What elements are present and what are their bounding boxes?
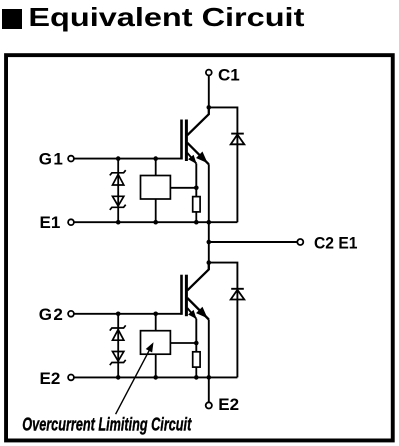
node sense junction Q2 [194, 341, 199, 346]
wire E2 bus [74, 376, 238, 378]
wire main emitter and midpoint link [208, 164, 210, 269]
node E1-emitter junction [207, 220, 212, 225]
terminal E2 output [206, 402, 212, 408]
svg-text:E1: E1 [40, 213, 61, 232]
callout arrow to overcurrent limiting circuit [116, 343, 154, 414]
wire G1 bus [74, 158, 183, 160]
node G1-box junction [153, 156, 158, 161]
node G2-box junction [153, 312, 158, 317]
svg-text:Equivalent Circuit: Equivalent Circuit [28, 2, 304, 32]
node E2-zener junction [116, 375, 121, 380]
svg-text:Overcurrent Limiting Circuit: Overcurrent Limiting Circuit [22, 414, 191, 435]
terminal E2 left [68, 375, 74, 381]
node sense junction Q1 [194, 186, 199, 191]
node E1-box junction [153, 220, 158, 225]
wire sense emitter Q2 [195, 319, 197, 352]
svg-text:C1: C1 [218, 66, 240, 85]
node E2-resistor junction [194, 375, 199, 380]
wire zener chain Z2 [117, 314, 119, 378]
wire sense emitter Q1 [195, 164, 197, 197]
resistor R2 [193, 352, 200, 378]
terminal G1 [68, 156, 74, 162]
node E1-resistor junction [194, 220, 199, 225]
zener diode Z2b [110, 352, 126, 366]
resistor R1 [193, 197, 200, 223]
terminal G2 [68, 311, 74, 317]
svg-text:E2: E2 [218, 395, 239, 414]
title square bullet [2, 9, 22, 29]
node C2E1 junction [207, 240, 212, 245]
terminal E1 [68, 219, 74, 225]
node collector junction Q1 [207, 105, 212, 110]
terminal C2E1 [297, 239, 303, 245]
wire G2 bus [74, 313, 183, 315]
node E1-zener junction [116, 220, 121, 225]
node collector junction Q2 [207, 260, 212, 265]
overcurrent limiting circuit box U2 [141, 314, 197, 378]
diode D1 [231, 134, 245, 145]
svg-text:G1: G1 [39, 150, 63, 169]
node G2-zener junction [116, 312, 121, 317]
zener diode Z1a [110, 170, 126, 185]
svg-text:C2 E1: C2 E1 [314, 233, 358, 252]
wire E1 bus [74, 221, 238, 223]
wire diode branch D1 [209, 107, 238, 222]
wire main emitter Q2 to output [208, 320, 210, 403]
node E2-box junction [153, 375, 158, 380]
svg-text:G2: G2 [39, 305, 63, 324]
transistor Q2 (IGBT) [182, 263, 209, 320]
wire diode branch D2 [209, 263, 238, 378]
wire C2E1 [209, 241, 297, 243]
overcurrent limiting circuit box U1 [141, 159, 197, 223]
terminal C1 [206, 70, 212, 76]
node E2-emitter junction [207, 375, 212, 380]
diode D2 [231, 289, 245, 300]
wire zener chain Z1 [117, 159, 119, 223]
zener diode Z1b [110, 196, 126, 210]
svg-text:E2: E2 [40, 369, 61, 388]
node G1-zener junction [116, 156, 121, 161]
transistor Q1 (IGBT) [182, 107, 209, 164]
wire C1 to collector node [208, 75, 210, 107]
zener diode Z2a [110, 325, 126, 340]
